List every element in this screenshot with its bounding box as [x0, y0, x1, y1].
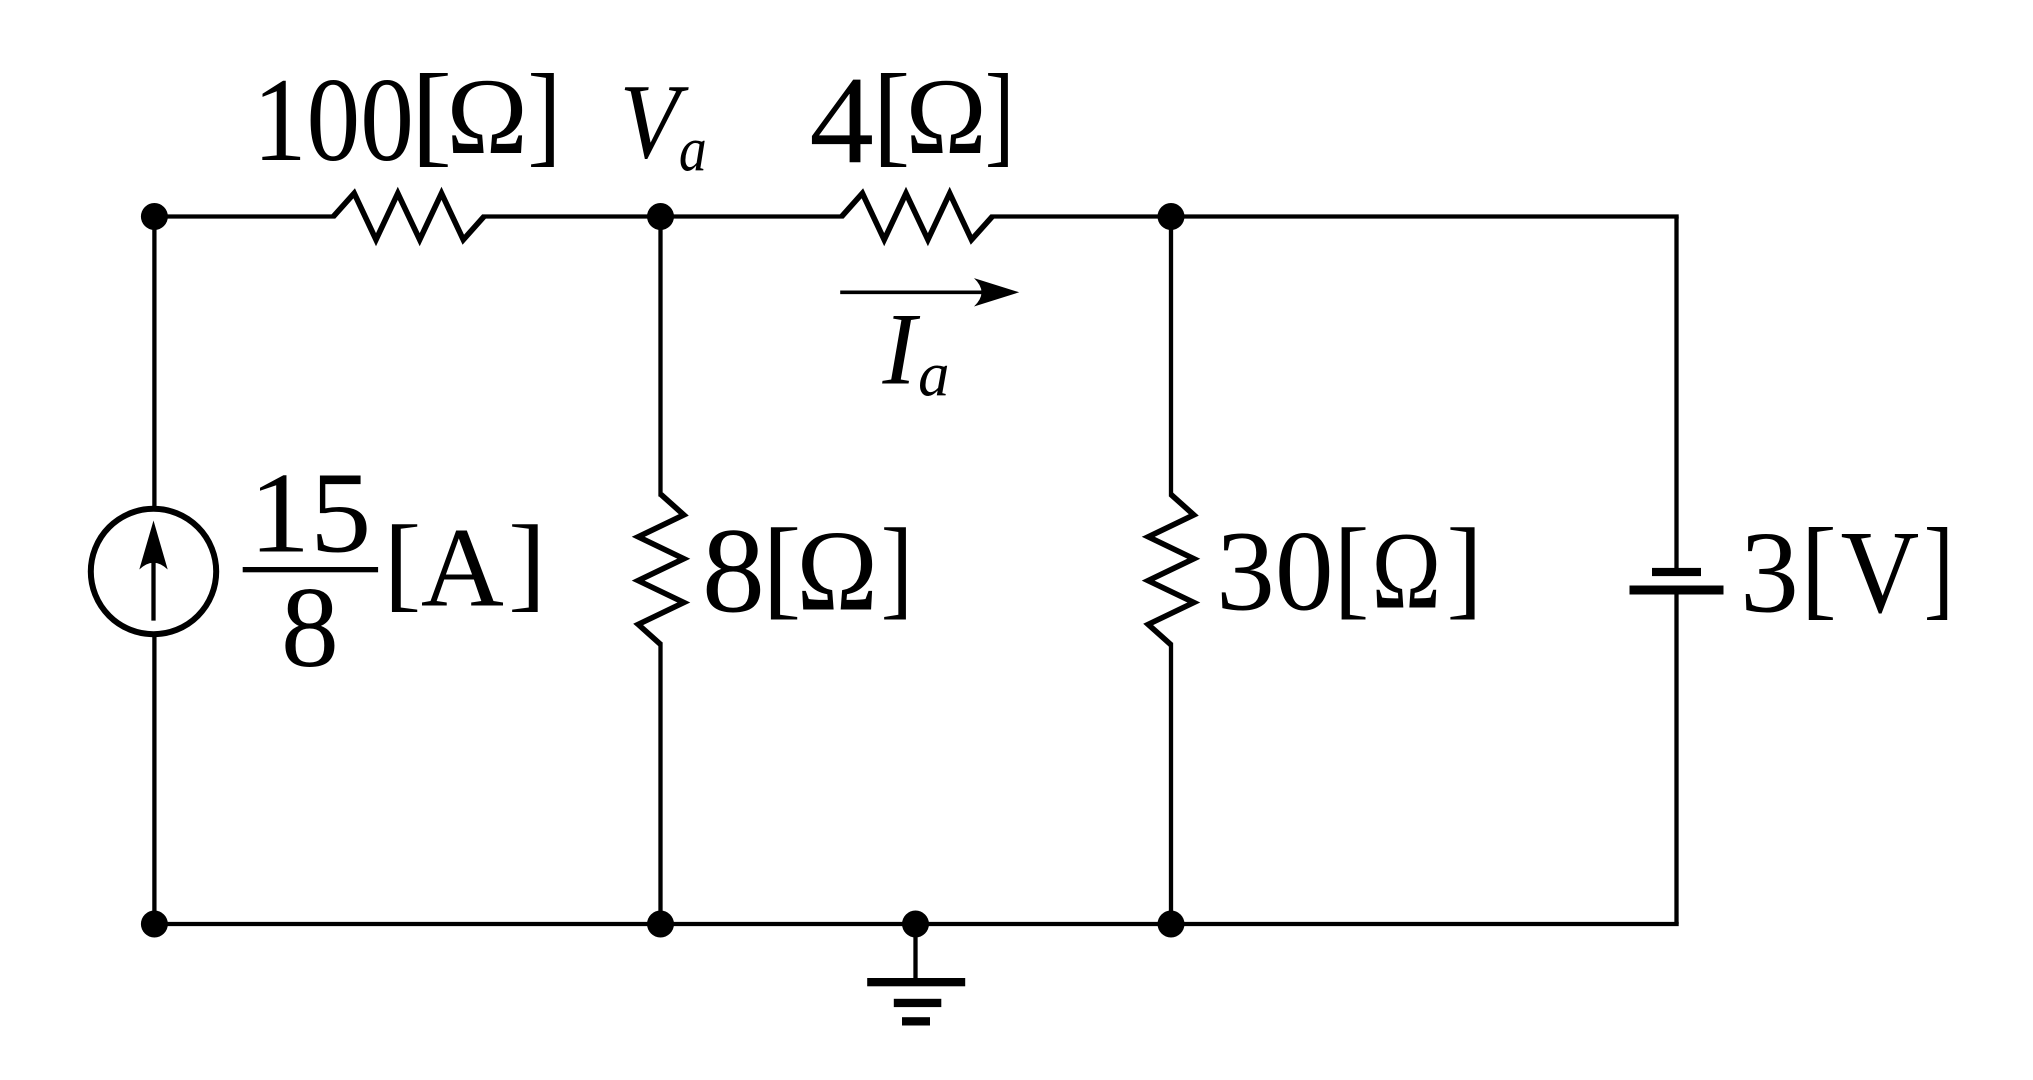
current source circle [91, 509, 216, 634]
svg-text:8: 8 [702, 503, 765, 638]
wire left vertical below current source [152, 632, 156, 924]
resistor 100[Ω] zigzag [333, 193, 484, 239]
fraction bar [243, 567, 378, 572]
battery 3[V] bottom plate [1630, 586, 1724, 595]
svg-text:]: ] [881, 506, 914, 629]
wire bottom horizontal [154, 922, 1678, 926]
svg-text:V: V [1841, 506, 1920, 638]
resistor 4[Ω] zigzag [842, 193, 993, 239]
svg-text:Ω: Ω [1372, 510, 1441, 632]
wire right vertical below battery [1674, 590, 1678, 924]
ground bar 1 [867, 978, 965, 986]
svg-text:a: a [679, 115, 707, 185]
svg-text:4: 4 [809, 51, 874, 190]
svg-text:Ω: Ω [797, 508, 878, 636]
wire between 100[Ω] and node Va [482, 214, 844, 218]
node top junction dot at 30ohm branch [1158, 203, 1185, 230]
svg-text:]: ] [985, 51, 1015, 177]
svg-text:Ω: Ω [447, 56, 528, 177]
svg-text:]: ] [527, 51, 561, 177]
svg-text:A: A [421, 505, 504, 631]
ground bar 2 [894, 999, 942, 1007]
svg-text:I: I [882, 294, 922, 407]
wire 30ohm branch upper [1169, 217, 1173, 497]
wire top-left segment [154, 214, 335, 218]
wire left vertical above current source [152, 217, 156, 511]
svg-text:]: ] [1447, 506, 1483, 629]
node top-left junction dot [141, 203, 168, 230]
node ground junction dot [902, 911, 929, 938]
ground stub wire [913, 924, 917, 979]
svg-text:3: 3 [1740, 508, 1799, 637]
svg-text:30: 30 [1216, 507, 1334, 634]
wire 8ohm branch lower [658, 643, 662, 924]
svg-text:[: [ [1801, 506, 1837, 630]
current arrow Ia head [974, 278, 1019, 306]
svg-text:[: [ [1334, 506, 1370, 629]
svg-text:[: [ [383, 504, 421, 621]
svg-text:100: 100 [253, 54, 414, 186]
svg-text:Ω: Ω [906, 56, 987, 177]
node bottom junction dot at 30ohm branch [1158, 911, 1185, 938]
svg-text:a: a [918, 340, 949, 410]
current source arrow shaft [151, 532, 155, 621]
resistor 8[Ω] zigzag [638, 495, 684, 645]
svg-text:]: ] [508, 504, 546, 621]
svg-text:]: ] [1924, 506, 1954, 630]
node Va junction dot [647, 203, 674, 230]
resistor 30[Ω] zigzag [1148, 495, 1194, 645]
current source arrow head [139, 521, 167, 570]
ground bar 3 [902, 1017, 930, 1025]
node bottom junction dot at 8ohm branch [647, 911, 674, 938]
wire right vertical above battery [1674, 217, 1678, 573]
wire 30ohm branch lower [1169, 643, 1173, 924]
battery 3[V] top plate [1652, 568, 1701, 576]
wire from 4[Ω] to top-right corner [990, 214, 1678, 218]
current arrow Ia shaft [840, 290, 1000, 294]
node bottom-left junction dot [141, 911, 168, 938]
wire 8ohm branch upper [658, 217, 662, 497]
svg-text:8: 8 [281, 564, 339, 692]
svg-text:15: 15 [249, 449, 371, 577]
